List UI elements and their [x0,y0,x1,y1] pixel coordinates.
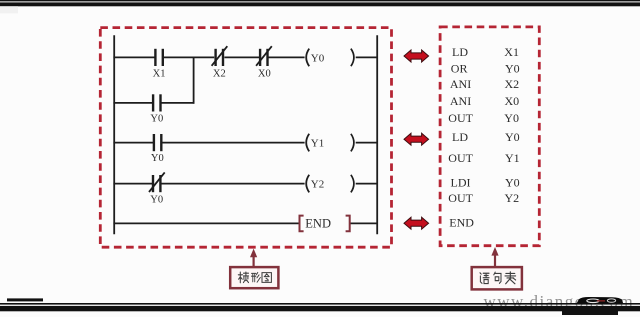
contact Y0 rung2 (NO) [153,134,155,151]
ladder dashed box [100,28,391,248]
bottom thick bar [0,306,640,311]
svg-text:ANI: ANI [450,94,471,108]
top thin rule [0,0,640,1]
svg-text:LD: LD [452,45,468,59]
statement dashed box [440,27,539,246]
glyph ti [238,272,248,283]
svg-text:END: END [305,217,331,231]
svg-text:Y0: Y0 [504,111,519,125]
svg-text:X1: X1 [153,68,166,79]
coil Y2 [306,175,309,193]
logo car blob [577,297,624,304]
contact X1 (NO) [154,49,156,66]
svg-text:OUT: OUT [448,151,473,165]
svg-text:X2: X2 [505,77,520,91]
glyph xing [252,272,261,282]
wire branch junction [193,57,195,103]
bottom-right logo tab [562,311,618,315]
svg-text:LDI: LDI [451,176,471,190]
red double arrow 3 [404,217,429,229]
svg-text:Y1: Y1 [505,151,520,165]
svg-text:X0: X0 [258,68,271,79]
END instruction brackets [300,216,304,232]
svg-text:LD: LD [452,130,468,144]
red double arrow 2 [404,133,429,145]
svg-text:Y0: Y0 [150,195,163,206]
svg-text:OR: OR [451,62,468,76]
bottom thin rule [0,303,640,305]
coil Y1 [306,134,309,152]
svg-text:X2: X2 [213,68,226,79]
bottom-left short bar [7,298,43,301]
svg-text:Y0: Y0 [151,153,164,164]
wire rung END [113,222,299,224]
svg-text:X0: X0 [505,94,520,108]
svg-text:Y2: Y2 [505,191,520,205]
svg-text:Y0: Y0 [505,130,520,144]
glyph tu [262,273,271,283]
svg-text:Y1: Y1 [311,138,324,150]
svg-text:Y0: Y0 [505,176,520,190]
contact Y0 branch (NO) [152,94,154,111]
connector arrow to statement label [494,254,496,268]
statement label box (yu ju biao) [472,267,522,289]
svg-text:Y0: Y0 [150,113,163,124]
connector arrow to ladder label [253,256,255,268]
svg-text:OUT: OUT [448,111,473,125]
svg-text:Y2: Y2 [311,179,324,191]
glyph ju [494,272,501,283]
svg-text:END: END [449,215,474,229]
coil Y0 [306,49,309,67]
right power rail [376,35,378,234]
red double arrow 1 [404,50,429,62]
svg-text:Y0: Y0 [311,52,325,64]
wire branch rung [113,102,153,104]
contact X0 (NC) [259,49,261,66]
svg-text:OUT: OUT [448,191,473,205]
svg-text:Y0: Y0 [505,62,520,76]
glyph biao [505,272,516,284]
contact Y0 rung3 (NC) [152,175,154,192]
wire rung2 [113,142,153,144]
wire rung1 [113,56,154,58]
left power rail [113,35,115,234]
svg-text:ANI: ANI [450,77,471,91]
ladder label box (ti xing tu) [230,267,278,288]
contact X2 (NC) [214,49,216,66]
instruction list [448,45,519,229]
wire rung3 [113,183,152,185]
glyph yu [480,273,489,284]
top thick bar [0,2,640,6]
svg-text:X1: X1 [504,45,519,59]
